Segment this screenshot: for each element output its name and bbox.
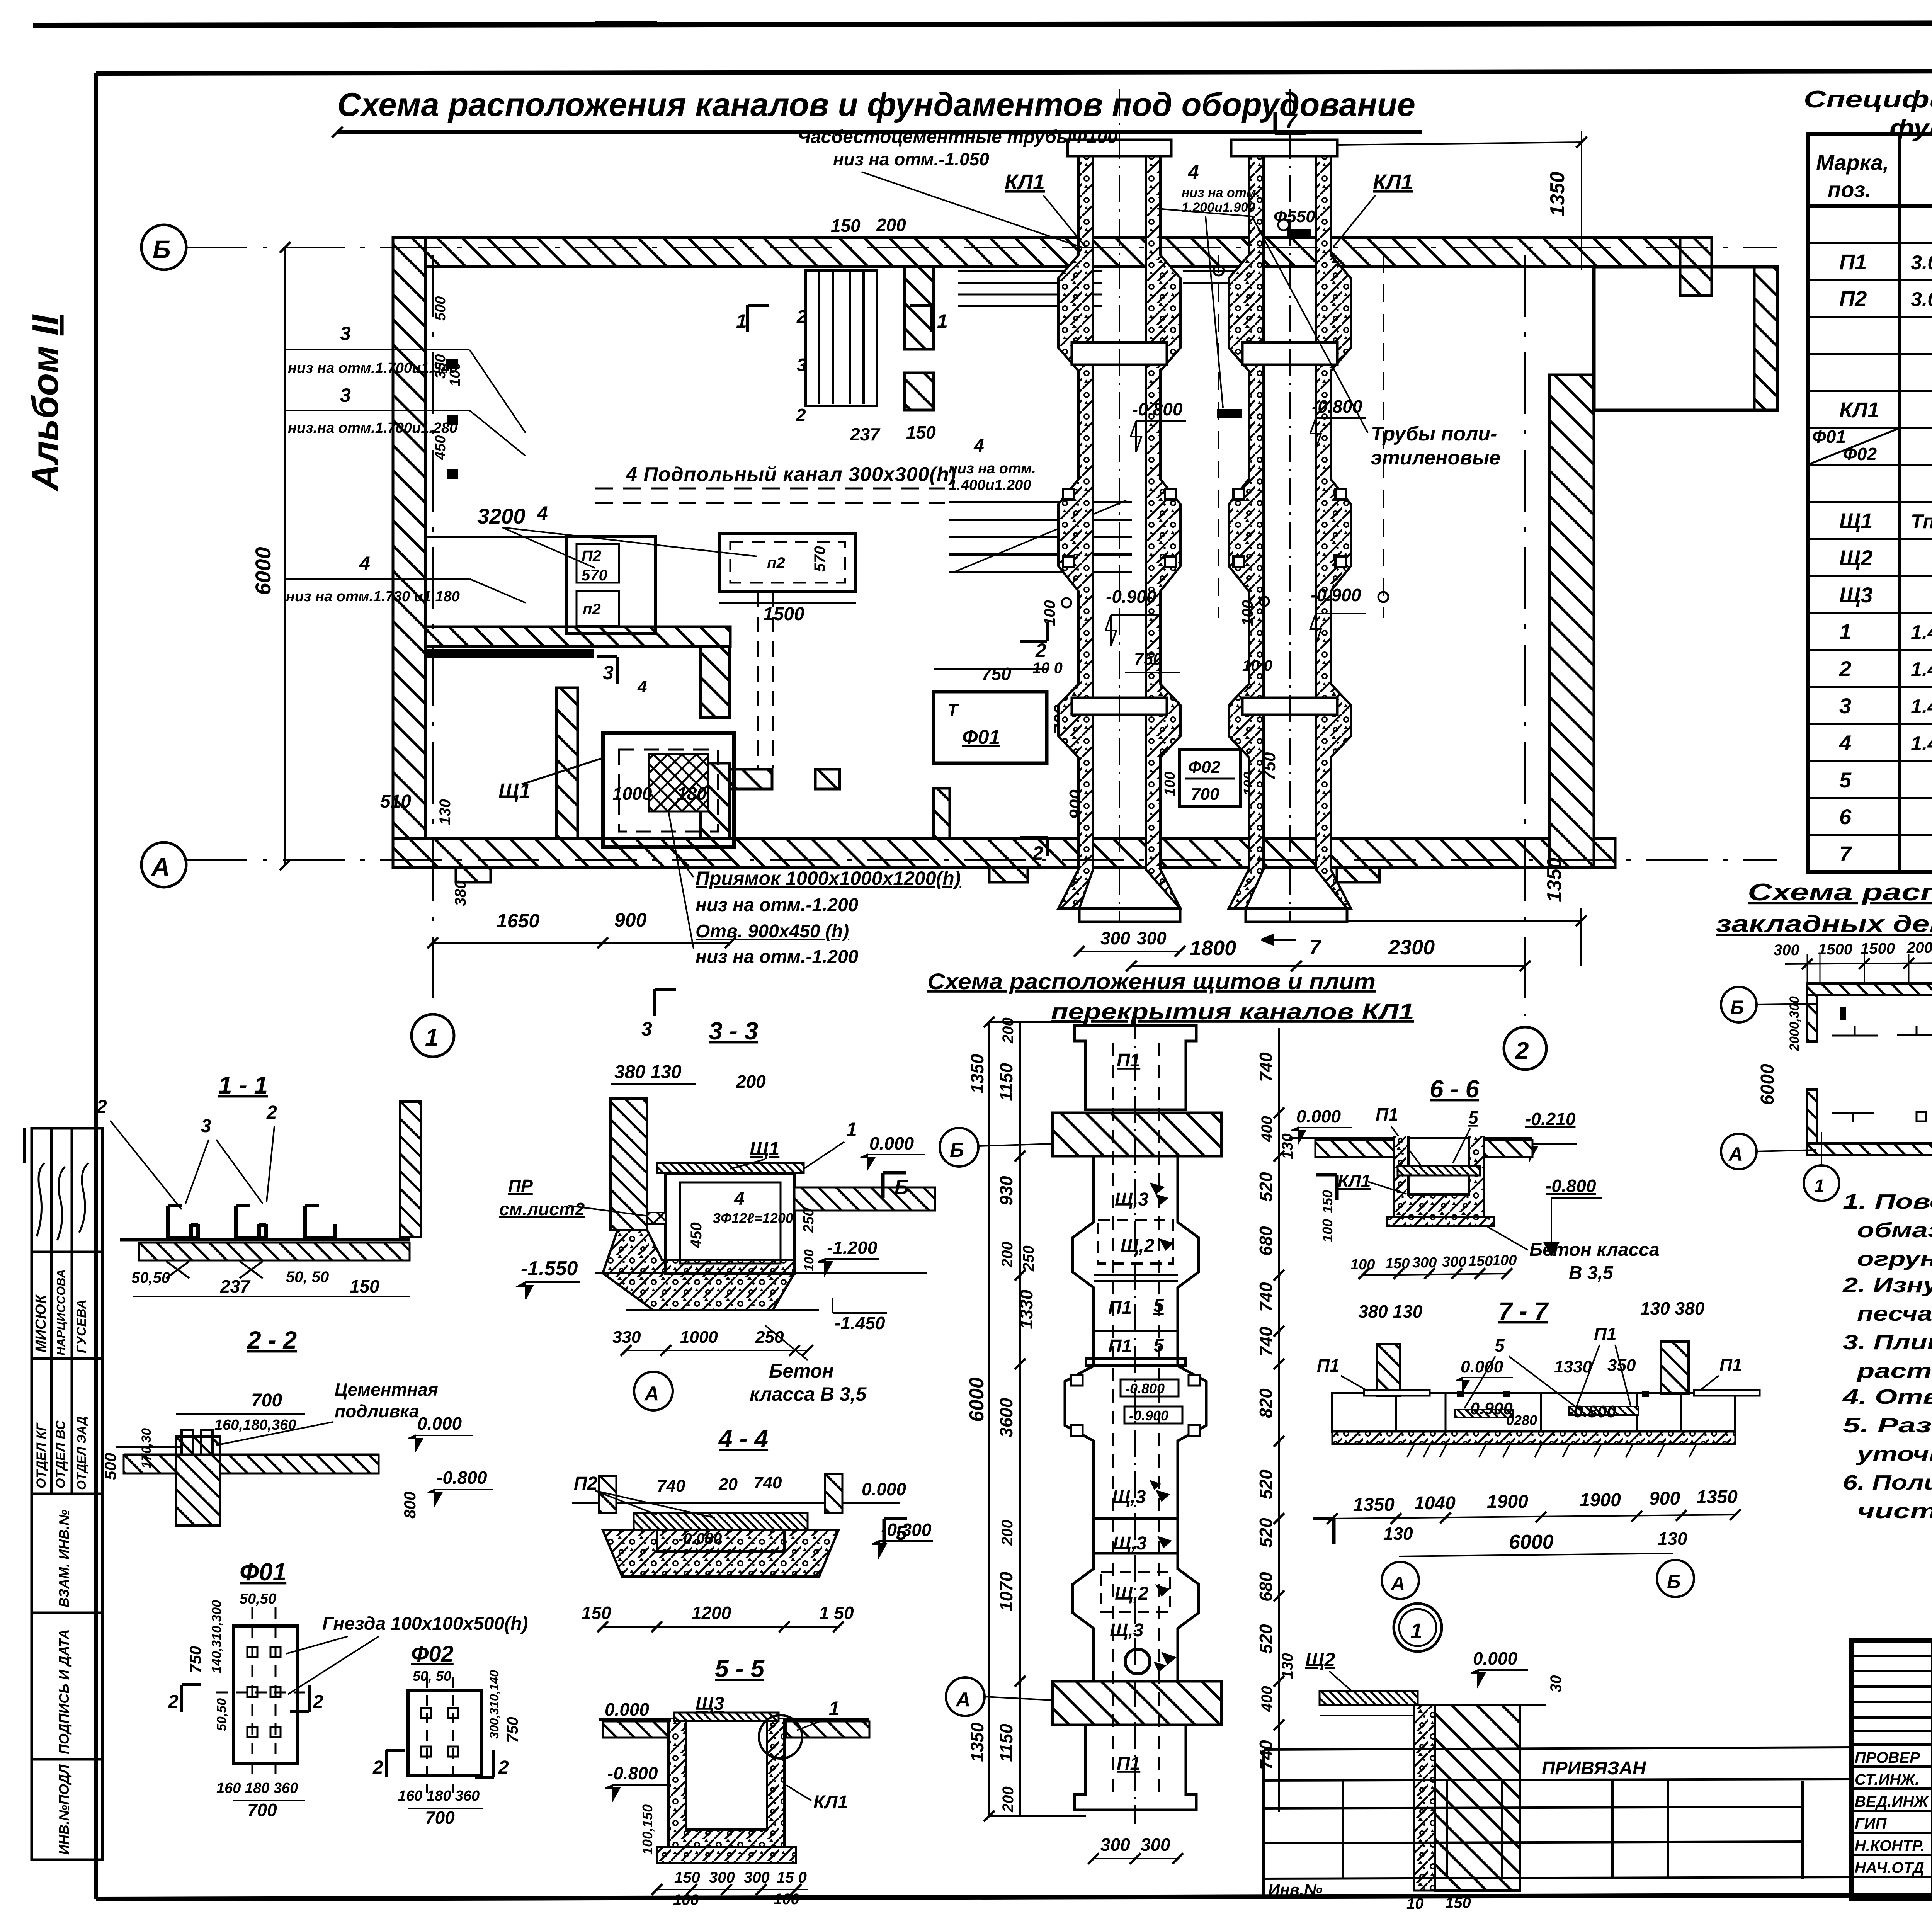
svg-text:П1: П1: [1839, 250, 1867, 274]
svg-text:п2: п2: [583, 601, 601, 618]
svg-text:300,310,140: 300,310,140: [487, 1670, 501, 1739]
svg-text:300: 300: [1100, 928, 1130, 948]
svg-text:750: 750: [504, 1717, 521, 1743]
svg-text:1350: 1350: [1696, 1487, 1738, 1507]
svg-text:1: 1: [1839, 619, 1851, 644]
svg-text:поз.: поз.: [1828, 177, 1871, 202]
svg-text:4 - 4: 4 - 4: [718, 1425, 768, 1452]
svg-text:ПР: ПР: [508, 1176, 533, 1196]
svg-text:2300: 2300: [1388, 936, 1435, 959]
svg-text:150: 150: [1468, 1253, 1493, 1269]
svg-text:150: 150: [350, 1276, 379, 1296]
svg-text:Ф02: Ф02: [1188, 758, 1221, 777]
svg-text:300: 300: [1100, 1835, 1130, 1855]
svg-text:1900: 1900: [1487, 1492, 1528, 1512]
svg-text:100: 100: [1492, 1252, 1517, 1269]
svg-text:150: 150: [831, 216, 861, 236]
svg-text:-0.800: -0.800: [1546, 1176, 1596, 1196]
svg-text:ВЗАМ. ИНВ.№: ВЗАМ. ИНВ.№: [56, 1510, 72, 1607]
svg-text:680: 680: [1256, 1572, 1276, 1602]
svg-text:-1.550: -1.550: [521, 1257, 578, 1280]
svg-text:Ф02: Ф02: [1843, 444, 1877, 464]
svg-text:3: 3: [201, 1116, 211, 1136]
svg-text:низ.на отм.1.700и1.280: низ.на отм.1.700и1.280: [288, 420, 457, 436]
svg-text:740: 740: [657, 1476, 685, 1495]
svg-text:П2: П2: [1839, 286, 1867, 311]
svg-text:1650: 1650: [497, 910, 539, 932]
svg-text:закладных деталей на отм.2.: закладных деталей на отм.2.700 и2.400: [1716, 911, 1932, 937]
svg-text:0.000: 0.000: [862, 1479, 906, 1499]
svg-text:150: 150: [1445, 1895, 1471, 1912]
svg-text:2 - 2: 2 - 2: [247, 1326, 297, 1354]
svg-text:Ф01: Ф01: [1812, 427, 1846, 447]
svg-text:Б: Б: [895, 1176, 909, 1199]
svg-text:1: 1: [846, 1119, 857, 1140]
svg-text:6 - 6: 6 - 6: [1430, 1075, 1479, 1103]
svg-text:700: 700: [1191, 785, 1219, 804]
svg-text:100: 100: [774, 1891, 799, 1908]
svg-text:1: 1: [1410, 1619, 1422, 1643]
svg-text:130: 130: [1658, 1529, 1687, 1549]
svg-text:1200: 1200: [692, 1603, 731, 1623]
svg-text:-0.800: -0.800: [1312, 396, 1362, 417]
svg-text:2: 2: [266, 1102, 277, 1123]
svg-text:1.400и1.200: 1.400и1.200: [949, 477, 1031, 493]
svg-text:Спецификация к схеме распол: Спецификация к схеме расположения канало…: [1804, 86, 1932, 113]
svg-text:100: 100: [802, 1249, 816, 1271]
svg-text:4: 4: [537, 502, 548, 524]
svg-text:4: 4: [734, 1189, 745, 1209]
svg-text:Ф02: Ф02: [411, 1641, 454, 1667]
svg-text:Альбом II: Альбом II: [25, 314, 66, 492]
svg-text:А: А: [1728, 1143, 1743, 1165]
svg-text:1350: 1350: [967, 1054, 987, 1094]
svg-text:1: 1: [736, 310, 747, 332]
svg-text:-0.080: -0.080: [678, 1530, 722, 1547]
svg-text:-0.800: -0.800: [1125, 1381, 1165, 1396]
svg-text:5: 5: [896, 1522, 907, 1544]
svg-text:1500: 1500: [1861, 940, 1895, 957]
svg-text:6. Полиэтиленовые трубы заложи: 6. Полиэтиленовые трубы заложить до устр…: [1843, 1471, 1932, 1494]
svg-text:2. Изнутри стены каналов ошту: 2. Изнутри стены каналов оштукатурить це…: [1842, 1274, 1932, 1297]
svg-text:200: 200: [736, 1071, 766, 1092]
svg-text:820: 820: [1256, 1388, 1276, 1418]
svg-text:-0.800: -0.800: [1132, 399, 1183, 419]
svg-text:1330: 1330: [1554, 1357, 1592, 1376]
svg-text:1330: 1330: [1016, 1289, 1036, 1329]
svg-text:А: А: [644, 1383, 659, 1405]
svg-text:-1.200: -1.200: [827, 1238, 878, 1258]
svg-text:5: 5: [1839, 768, 1852, 792]
svg-text:П2: П2: [574, 1473, 598, 1494]
svg-text:570: 570: [582, 567, 607, 584]
svg-text:30: 30: [1548, 1675, 1565, 1693]
svg-text:520: 520: [1256, 1518, 1276, 1548]
svg-text:500: 500: [432, 296, 449, 321]
svg-text:570: 570: [811, 546, 828, 572]
svg-text:НАРЦИССОВА: НАРЦИССОВА: [54, 1269, 68, 1355]
svg-text:100: 100: [1239, 600, 1256, 626]
svg-text:5: 5: [1153, 1296, 1164, 1316]
svg-text:7 - 7: 7 - 7: [1498, 1297, 1549, 1325]
svg-text:2: 2: [313, 1692, 323, 1712]
svg-text:этиленовые: этиленовые: [1371, 447, 1500, 469]
svg-text:4: 4: [359, 553, 370, 574]
svg-text:низ на отм.: низ на отм.: [1182, 185, 1260, 200]
svg-text:ОТДЕЛ ВС: ОТДЕЛ ВС: [53, 1420, 68, 1488]
svg-text:6000: 6000: [1757, 1064, 1778, 1105]
svg-text:740: 740: [1256, 1052, 1276, 1082]
svg-text:П1: П1: [1117, 1753, 1140, 1774]
svg-text:500: 500: [101, 1453, 119, 1480]
svg-text:Щ3: Щ3: [696, 1694, 724, 1714]
svg-text:1350: 1350: [1353, 1495, 1395, 1515]
svg-text:2: 2: [96, 1097, 107, 1117]
svg-text:300: 300: [1141, 1835, 1170, 1855]
svg-text:1: 1: [1814, 1176, 1825, 1197]
svg-text:170,30: 170,30: [139, 1428, 154, 1468]
svg-text:МИСЮК: МИСЮК: [33, 1294, 49, 1352]
svg-text:3: 3: [641, 1018, 652, 1040]
svg-text:700: 700: [247, 1800, 277, 1820]
svg-text:Щ1: Щ1: [750, 1138, 779, 1160]
svg-text:1040: 1040: [1414, 1493, 1456, 1514]
svg-text:50,50: 50,50: [131, 1269, 170, 1286]
svg-text:3: 3: [1839, 694, 1851, 718]
svg-text:6: 6: [1839, 804, 1852, 829]
svg-text:20: 20: [718, 1475, 738, 1494]
svg-text:200: 200: [999, 1242, 1016, 1268]
svg-text:6000: 6000: [251, 547, 275, 595]
svg-text:4 Подпольный канал 300х300(h): 4 Подпольный канал 300х300(h): [626, 463, 956, 486]
svg-text:Схема расположения щитов и пл: Схема расположения щитов и плит: [927, 969, 1376, 994]
svg-text:130: 130: [1279, 1653, 1296, 1679]
svg-text:Щ1: Щ1: [1839, 509, 1873, 533]
svg-text:4: 4: [1188, 161, 1199, 183]
svg-text:100: 100: [673, 1891, 699, 1908]
svg-text:1000: 1000: [612, 784, 652, 804]
svg-text:150: 150: [674, 1869, 700, 1886]
svg-text:4: 4: [973, 436, 984, 456]
svg-text:3600: 3600: [996, 1398, 1016, 1437]
svg-text:700: 700: [425, 1808, 455, 1828]
svg-text:50,50: 50,50: [214, 1698, 229, 1731]
svg-text:200: 200: [1000, 1786, 1017, 1813]
svg-text:низ на отм.-1.050: низ на отм.-1.050: [833, 149, 989, 169]
svg-text:6000: 6000: [1509, 1531, 1554, 1553]
svg-text:Щ,3: Щ,3: [1115, 1189, 1149, 1210]
svg-text:3: 3: [340, 323, 351, 344]
svg-text:ПОДПИСЬ И ДАТА: ПОДПИСЬ И ДАТА: [56, 1629, 72, 1754]
svg-text:п2: п2: [767, 554, 785, 571]
svg-text:-0.210: -0.210: [1525, 1109, 1576, 1129]
svg-text:750: 750: [981, 664, 1011, 684]
svg-text:740: 740: [1256, 1740, 1276, 1770]
svg-text:-0.900: -0.900: [1464, 1399, 1513, 1418]
svg-text:1150: 1150: [996, 1724, 1016, 1762]
svg-text:900: 900: [614, 909, 647, 931]
svg-text:1.400-15.В1 110-09: 1.400-15.В1 110-09: [1911, 733, 1932, 755]
svg-text:ИНВ.№ПОДЛ: ИНВ.№ПОДЛ: [56, 1764, 72, 1855]
svg-text:Марка,: Марка,: [1816, 150, 1889, 175]
svg-text:-1.450: -1.450: [835, 1313, 885, 1333]
svg-text:КЛ1: КЛ1: [813, 1792, 848, 1813]
svg-text:130: 130: [1383, 1524, 1413, 1544]
svg-text:перекрытия каналов КЛ1: перекрытия каналов КЛ1: [1051, 999, 1414, 1024]
svg-text:1.400-15.В1.410: 1.400-15.В1.410: [1911, 658, 1932, 681]
svg-text:П1: П1: [1108, 1298, 1132, 1318]
svg-text:740: 740: [1256, 1282, 1276, 1312]
svg-text:300: 300: [1137, 928, 1167, 948]
svg-text:2000,300: 2000,300: [1787, 996, 1802, 1051]
svg-text:180: 180: [677, 784, 707, 804]
svg-text:Отв. 900х450 (h): Отв. 900х450 (h): [696, 921, 849, 942]
svg-text:ГИП: ГИП: [1855, 1815, 1887, 1832]
svg-text:КЛ1: КЛ1: [1005, 170, 1045, 194]
svg-text:2: 2: [796, 306, 807, 327]
svg-text:Инв.№: Инв.№: [1268, 1881, 1323, 1899]
svg-text:2: 2: [1839, 656, 1851, 681]
svg-text:140,310,300: 140,310,300: [209, 1600, 224, 1673]
svg-text:3: 3: [603, 662, 614, 684]
svg-text:0.000: 0.000: [1296, 1106, 1341, 1126]
svg-text:50,50: 50,50: [240, 1591, 276, 1607]
svg-text:100: 100: [1320, 1219, 1335, 1242]
svg-text:2000: 2000: [1906, 939, 1932, 956]
svg-text:3: 3: [340, 384, 351, 406]
svg-text:3. Плиты перекрытия укладыва: 3. Плиты перекрытия укладывать на цемент…: [1843, 1331, 1932, 1354]
svg-text:1900: 1900: [1580, 1490, 1621, 1510]
svg-text:160,180,360: 160,180,360: [214, 1417, 296, 1433]
svg-text:0.000: 0.000: [417, 1413, 462, 1434]
svg-text:330: 330: [612, 1328, 641, 1347]
svg-text:П1: П1: [1594, 1324, 1617, 1344]
svg-text:7: 7: [1285, 109, 1298, 133]
svg-text:П1: П1: [1108, 1336, 1132, 1357]
svg-text:0.000: 0.000: [1473, 1648, 1518, 1668]
svg-text:300: 300: [1774, 942, 1799, 959]
svg-text:450: 450: [432, 435, 449, 460]
svg-text:750: 750: [186, 1646, 204, 1673]
svg-text:100: 100: [1162, 772, 1178, 796]
svg-text:ПРИВЯЗАН: ПРИВЯЗАН: [1542, 1758, 1646, 1779]
svg-text:300: 300: [1442, 1254, 1466, 1270]
svg-text:740: 740: [753, 1473, 782, 1492]
svg-text:низ на отм.-1.200: низ на отм.-1.200: [696, 895, 859, 915]
svg-text:КЛ1: КЛ1: [1839, 398, 1879, 422]
svg-text:Щ2: Щ2: [1305, 1649, 1335, 1670]
svg-text:350: 350: [1607, 1356, 1636, 1375]
svg-text:ВЕД.ИНЖ: ВЕД.ИНЖ: [1855, 1793, 1929, 1810]
svg-text:1 50: 1 50: [819, 1603, 854, 1623]
svg-text:Б: Б: [1667, 1571, 1680, 1592]
svg-text:Щ3: Щ3: [1839, 583, 1873, 607]
svg-text:900: 900: [1649, 1488, 1680, 1509]
svg-text:2: 2: [1032, 842, 1043, 864]
svg-text:Б: Б: [153, 235, 171, 264]
svg-text:0.000: 0.000: [1461, 1357, 1503, 1376]
svg-text:150: 150: [1385, 1255, 1410, 1272]
svg-text:низ на отм.1.730 и1.180: низ на отм.1.730 и1.180: [286, 588, 460, 605]
svg-text:В 3,5: В 3,5: [1569, 1263, 1614, 1283]
svg-text:510: 510: [380, 791, 411, 812]
svg-text:5: 5: [1468, 1107, 1479, 1128]
svg-text:300: 300: [709, 1869, 735, 1886]
svg-text:1150: 1150: [996, 1063, 1016, 1101]
svg-text:низ на отм.: низ на отм.: [949, 461, 1036, 477]
svg-text:1. Поверхности каналов, сопри: 1. Поверхности каналов, соприкасающиеся …: [1843, 1190, 1932, 1213]
svg-text:130: 130: [437, 799, 454, 825]
svg-text:1.400-15.В1.120-18: 1.400-15.В1.120-18: [1911, 696, 1932, 718]
svg-text:Т: Т: [947, 701, 959, 719]
svg-text:класса В 3,5: класса В 3,5: [750, 1383, 867, 1405]
svg-text:Щ,2: Щ,2: [1121, 1236, 1155, 1256]
svg-text:1500: 1500: [763, 604, 804, 624]
svg-text:1350: 1350: [967, 1722, 987, 1762]
svg-text:см.лист2: см.лист2: [499, 1199, 585, 1219]
svg-text:3.006.1-2/82.1-2-1.0-: 3.006.1-2/82.1-2-1.0-: [1911, 252, 1932, 274]
svg-text:Н.КОНТР.: Н.КОНТР.: [1855, 1837, 1925, 1854]
svg-text:3 - 3: 3 - 3: [709, 1017, 758, 1045]
svg-text:Трубы поли-: Трубы поли-: [1371, 423, 1497, 445]
svg-text:Ф550: Ф550: [1274, 207, 1315, 226]
svg-text:1350: 1350: [1546, 172, 1569, 216]
svg-text:7: 7: [1839, 842, 1852, 866]
svg-text:П1: П1: [1719, 1355, 1742, 1375]
svg-text:П1: П1: [1117, 1050, 1140, 1071]
svg-text:4: 4: [637, 677, 647, 696]
svg-text:380: 380: [452, 880, 469, 906]
svg-text:раствор М 100.: раствор М 100.: [1856, 1359, 1932, 1383]
svg-text:4: 4: [1839, 731, 1851, 755]
svg-text:1500: 1500: [1818, 941, 1852, 958]
svg-text:П1: П1: [1376, 1104, 1398, 1124]
svg-text:Б: Б: [950, 1139, 964, 1162]
svg-text:250: 250: [1020, 1245, 1037, 1272]
svg-text:низ на отм.-1.200: низ на отм.-1.200: [696, 947, 859, 967]
svg-text:-0.800: -0.800: [437, 1468, 487, 1488]
svg-text:Схема расположения: Схема расположения: [1748, 879, 1932, 906]
svg-text:НАЧ.ОТД: НАЧ.ОТД: [1855, 1859, 1924, 1876]
svg-text:Ф01: Ф01: [962, 726, 1000, 748]
svg-text:300: 300: [1412, 1255, 1437, 1271]
svg-text:КЛ1: КЛ1: [1373, 170, 1413, 194]
svg-text:Щ2: Щ2: [1839, 546, 1873, 570]
svg-text:А: А: [151, 852, 170, 881]
svg-text:10 0: 10 0: [1242, 657, 1272, 674]
svg-text:520: 520: [1256, 1624, 1276, 1654]
svg-text:П1: П1: [1317, 1355, 1340, 1376]
svg-text:380 130: 380 130: [614, 1062, 682, 1082]
svg-text:160 180 360: 160 180 360: [216, 1780, 298, 1796]
svg-text:350: 350: [432, 354, 449, 379]
svg-text:Тп902-2-449.88КЖ.И.03.00: Тп902-2-449.88КЖ.И.03.00: [1911, 510, 1932, 533]
svg-text:5: 5: [1153, 1335, 1164, 1356]
svg-text:200: 200: [1000, 1017, 1017, 1044]
svg-text:Схема расположения каналов: Схема расположения каналов и фундаментов…: [337, 86, 1415, 123]
svg-text:200: 200: [876, 215, 906, 235]
svg-text:-0.800: -0.800: [1568, 1402, 1616, 1421]
svg-text:КЛ1: КЛ1: [1338, 1171, 1371, 1191]
svg-text:0.000: 0.000: [605, 1699, 650, 1719]
svg-text:Бетон класса: Бетон класса: [1529, 1240, 1660, 1260]
svg-text:-0.800: -0.800: [607, 1763, 658, 1783]
svg-text:огрунтовке раствором битума в: огрунтовке раствором битума в бензине.: [1857, 1247, 1932, 1270]
svg-text:1.200и1.900: 1.200и1.900: [1182, 200, 1255, 215]
svg-text:2: 2: [796, 405, 806, 425]
svg-text:-0.900: -0.900: [1311, 585, 1361, 605]
svg-text:100: 100: [1350, 1257, 1375, 1273]
svg-text:5: 5: [1495, 1335, 1505, 1355]
svg-text:П2: П2: [582, 548, 601, 565]
svg-text:150: 150: [1320, 1190, 1335, 1213]
svg-text:800: 800: [401, 1492, 419, 1519]
svg-text:1: 1: [425, 1024, 438, 1051]
svg-text:15 0: 15 0: [777, 1869, 807, 1886]
svg-text:Гнезда 100х100х500(h): Гнезда 100х100х500(h): [322, 1614, 528, 1634]
svg-text:Щ,3: Щ,3: [1112, 1487, 1146, 1507]
svg-text:100,150: 100,150: [639, 1804, 655, 1855]
svg-text:0.000: 0.000: [869, 1133, 914, 1153]
svg-text:ГУСЕВА: ГУСЕВА: [74, 1299, 89, 1353]
svg-text:2: 2: [168, 1692, 179, 1712]
svg-text:450: 450: [688, 1222, 705, 1248]
svg-text:300: 300: [744, 1869, 770, 1886]
svg-text:3200: 3200: [477, 504, 526, 528]
svg-text:750: 750: [1134, 650, 1163, 668]
svg-text:100: 100: [1041, 600, 1058, 626]
svg-text:-0.900: -0.900: [1106, 587, 1156, 607]
svg-text:740: 740: [1256, 1327, 1276, 1356]
svg-text:700: 700: [251, 1390, 282, 1411]
svg-text:2: 2: [1515, 1037, 1529, 1064]
svg-text:930: 930: [996, 1176, 1016, 1206]
svg-text:ПРОВЕР: ПРОВЕР: [1855, 1749, 1920, 1766]
svg-text:2: 2: [372, 1757, 383, 1778]
svg-text:7: 7: [1309, 936, 1322, 959]
svg-text:237: 237: [850, 424, 881, 444]
svg-text:Цементная: Цементная: [335, 1379, 438, 1400]
svg-text:Щ,3: Щ,3: [1110, 1620, 1144, 1641]
svg-text:А: А: [1390, 1573, 1405, 1594]
svg-text:160 180 360: 160 180 360: [398, 1788, 480, 1804]
svg-text:А: А: [955, 1689, 971, 1711]
svg-text:1: 1: [937, 310, 948, 332]
svg-text:130 380: 130 380: [1640, 1298, 1705, 1318]
svg-text:150: 150: [582, 1603, 611, 1623]
svg-text:фундаментов под оборудование: фундаментов под оборудование: [1889, 115, 1932, 141]
svg-text:680: 680: [1256, 1226, 1276, 1256]
svg-text:150: 150: [906, 422, 936, 442]
svg-text:чистого пола.: чистого пола.: [1857, 1500, 1932, 1523]
svg-text:уточнить после получения обор: уточнить после получения оборудования: [1855, 1442, 1932, 1466]
svg-text:-0.900: -0.900: [1129, 1408, 1168, 1423]
svg-text:520: 520: [1256, 1469, 1276, 1499]
svg-text:ОТДЕЛ КГ: ОТДЕЛ КГ: [34, 1422, 49, 1488]
svg-text:3Ф12ℓ=1200: 3Ф12ℓ=1200: [713, 1210, 793, 1226]
svg-text:380 130: 380 130: [1358, 1301, 1423, 1321]
svg-text:4. Отверстие в щите Щ3 вырез: 4. Отверстие в щите Щ3 вырезать по месту: [1842, 1385, 1932, 1408]
svg-text:1070: 1070: [996, 1571, 1016, 1611]
svg-text:200: 200: [999, 1520, 1016, 1546]
svg-text:10: 10: [1406, 1895, 1424, 1912]
svg-text:5 - 5: 5 - 5: [715, 1655, 765, 1682]
svg-text:Часбестоцементные трубыФ100: Часбестоцементные трубыФ100: [798, 127, 1118, 147]
svg-text:400: 400: [1259, 1116, 1276, 1142]
svg-text:ОТДЕЛ ЭАД: ОТДЕЛ ЭАД: [75, 1416, 88, 1490]
svg-text:0280: 0280: [1506, 1412, 1537, 1428]
svg-text:Ф01: Ф01: [240, 1558, 286, 1586]
